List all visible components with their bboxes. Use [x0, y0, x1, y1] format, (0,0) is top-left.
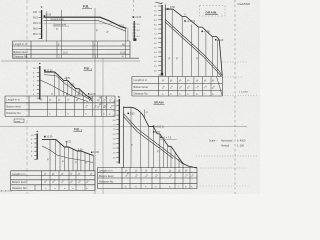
fig1 RD marker	[44, 14, 52, 16]
fig2 P labels	[51, 93, 80, 97]
drain1 stepped profile	[173, 9, 223, 76]
table5 cell dividers	[130, 167, 190, 188]
table5 row labels	[99, 169, 114, 184]
fig1 axis ruler	[33, 6, 42, 39]
fig1 chart left border	[46, 11, 48, 41]
global grid: vertical x=103	[102, 58, 104, 194]
fig2 step labels	[64, 78, 97, 96]
table1 frame lines	[12, 40, 130, 42]
fig2 middle ground line	[44, 75, 92, 101]
fig3 station verticals	[50, 139, 94, 170]
fig1 ground line	[44, 17, 127, 28]
fig1 text Ground level	[50, 18, 66, 21]
global grid: horizontal y=126	[0, 126, 247, 128]
fig2 end smudge labels	[88, 97, 94, 103]
fig3 step labels	[65, 142, 99, 155]
fig2 upper stepped profile	[44, 72, 92, 99]
table2 row labels	[6, 98, 21, 116]
fig1 label F.B.	[82, 5, 92, 9]
fig2 label F.B.2	[84, 66, 93, 71]
fig2 start label 10.50	[44, 69, 53, 72]
fig1 text Bottom level	[53, 24, 69, 27]
dotted horizontal y=95.8 right	[222, 95, 258, 97]
drain2 axis ruler	[113, 96, 120, 163]
drain1 bed line	[165, 22, 221, 76]
fig3 dim arrow	[66, 141, 68, 147]
drain2 station verticals	[131, 107, 183, 168]
fig1 right marker +0.00	[133, 16, 142, 19]
table1 values	[58, 43, 126, 58]
global grid: horizontal y=61	[1, 60, 140, 62]
fig1 right border	[127, 28, 129, 41]
drain1 DRAIN label	[200, 6, 226, 17]
drain2 label	[154, 101, 165, 105]
fig1 right ruler ladder	[133, 21, 141, 41]
fig1 station vertical x=125.7	[125, 28, 127, 58]
table1 cell dividers	[57, 41, 98, 58]
fig3 label F.B.3	[74, 127, 83, 132]
table4 values slanted	[162, 79, 216, 96]
table5 values slanted	[125, 169, 195, 188]
dotted horizontal y=77 right	[223, 76, 243, 78]
table3 values slanted	[44, 172, 94, 190]
global grid: dashed vertical x=235	[234, 0, 236, 194]
fig3 P labels	[47, 159, 87, 166]
dotted horizontal y=156 right	[196, 155, 258, 157]
fig3 axis ruler	[31, 131, 38, 160]
fig2 dim arrow	[65, 77, 67, 81]
drain1 P labels	[169, 58, 199, 61]
drain2 top profile	[123, 107, 197, 168]
drain1 station verticals	[172, 9, 217, 76]
drain2 P labels	[131, 144, 159, 154]
small stamp box	[14, 119, 24, 123]
drain1 chart left border	[164, 5, 166, 77]
fig3 lower bed line	[42, 146, 93, 163]
fig1 station vertical x=62	[61, 10, 63, 58]
fig2 lower bed line	[40, 80, 88, 102]
table2 cell dividers	[48, 96, 107, 116]
fig1 bottom line	[44, 21, 127, 32]
table3 cell dividers	[35, 171, 85, 191]
drain2 labels	[128, 112, 178, 139]
global grid: vertical x=95	[94, 8, 96, 194]
dotted horizontal y=62 right	[222, 61, 247, 63]
fig2 axis ruler	[33, 63, 41, 100]
drain2 chart left border	[122, 107, 124, 169]
global grid: dashed vertical x=27	[26, 0, 28, 194]
dotted horizontal y=168 right	[200, 167, 247, 169]
table4 row labels	[134, 78, 149, 96]
scan grain overlay	[0, 0, 260, 194]
table2 values slanted	[40, 95, 114, 116]
scale note	[209, 140, 246, 148]
fig3 upper stepped profile	[42, 139, 94, 155]
scan blotch overlay	[0, 0, 260, 194]
drain1 step labels	[184, 14, 224, 42]
drain2 shoulder tick	[145, 110, 149, 118]
table4 closing diagonal	[217, 77, 223, 97]
drain2 ground line	[123, 114, 183, 165]
table1 row labels	[13, 42, 28, 59]
fig2 station verticals	[55, 72, 89, 99]
dotted horizontal y=186 right	[200, 185, 250, 187]
dashed vertical top x=133.5	[133, 0, 135, 14]
fig3 start label 10.50	[44, 136, 53, 139]
fig1 water line	[44, 23, 113, 25]
drain1 ground line	[165, 20, 222, 77]
paper background	[0, 0, 260, 194]
table4 cell dividers	[168, 77, 211, 97]
drain1 axis ruler	[154, 2, 163, 75]
drain2 bed line	[123, 117, 173, 159]
drain1 start tick and label 0.50	[165, 6, 175, 10]
table3 row labels	[12, 172, 27, 190]
